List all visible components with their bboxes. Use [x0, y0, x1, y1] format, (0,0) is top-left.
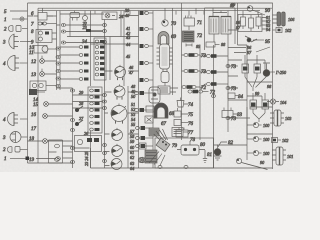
plug m8 [136, 127, 140, 130]
wire harness divider A [57, 11, 61, 90]
fuse 2 [95, 46, 99, 49]
sensor plug c [250, 100, 257, 109]
gauge 63 [111, 159, 122, 170]
plug m3 [140, 44, 144, 48]
wire divider L [213, 45, 215, 168]
plug 102a [273, 29, 276, 31]
lamp 3 rear [21, 136, 28, 138]
svg-text:95: 95 [265, 40, 271, 45]
node 1 lead [10, 158, 26, 160]
connector M88 [226, 87, 230, 90]
svg-text:1: 1 [4, 18, 7, 23]
wire divider O [246, 45, 248, 160]
plug L1 [79, 46, 83, 49]
svg-text:34: 34 [82, 40, 88, 45]
connector L96 [212, 95, 216, 98]
lamp 1 [12, 18, 28, 20]
svg-text:Г-250: Г-250 [275, 70, 287, 75]
svg-text:44: 44 [126, 42, 130, 47]
connector row y48 [56, 47, 60, 50]
relay 20 [70, 13, 80, 18]
connector M118 [226, 117, 230, 120]
ignition bay box [155, 138, 214, 168]
wire right bottom [214, 134, 273, 145]
lamp 16 [44, 102, 49, 107]
connector row y57 [56, 55, 60, 58]
wire frame top [28, 3, 273, 169]
wire divider G [138, 11, 140, 168]
svg-text:69: 69 [171, 35, 177, 40]
connector 72 [182, 85, 186, 88]
oil sensor 98 [263, 70, 270, 77]
svg-text:43: 43 [126, 35, 130, 40]
battery box [205, 8, 236, 50]
shunt 88 [213, 34, 215, 42]
svg-text:72: 72 [210, 91, 216, 96]
plug m2 [140, 27, 144, 31]
connector M30 [226, 29, 230, 32]
gauge 48 temp [114, 86, 125, 97]
wire rows to divider D [73, 95, 103, 108]
connector n1 [207, 54, 211, 57]
svg-text:68: 68 [169, 112, 175, 117]
wire divider C [90, 11, 92, 168]
svg-text:73: 73 [201, 70, 207, 75]
wire bus drops [95, 8, 258, 15]
ignition module hatch [145, 150, 157, 163]
switch 8 [36, 30, 52, 43]
svg-text:100: 100 [263, 151, 270, 156]
wire right column feeds [228, 45, 273, 139]
sensor 75a [146, 106, 154, 112]
svg-text:84: 84 [238, 95, 244, 100]
connector B y120 [70, 118, 74, 121]
connector row y86 [56, 84, 60, 87]
svg-text:71: 71 [197, 21, 202, 26]
svg-text:81: 81 [207, 153, 212, 158]
cyl 75 [174, 111, 181, 117]
svg-text:55: 55 [131, 122, 135, 127]
plug m6 [135, 92, 139, 95]
lighter 83 [222, 111, 233, 118]
node 5 lead [10, 10, 28, 12]
lamp 18 [43, 139, 48, 144]
svg-text:19: 19 [29, 158, 35, 163]
connector n4 [188, 90, 192, 93]
connector row y42 [61, 41, 65, 44]
plug 102b [272, 138, 278, 143]
sensor plug a [242, 64, 249, 73]
spark wire a [149, 152, 165, 166]
svg-text:70: 70 [171, 22, 177, 27]
wire divider M [227, 11, 229, 132]
bulb 100b [247, 138, 253, 140]
wire box bottom-left [49, 140, 73, 163]
wire divider E [123, 11, 125, 86]
svg-text:104: 104 [280, 100, 286, 105]
lamp 12 [40, 59, 45, 64]
connector D31 [103, 30, 107, 33]
wire divider J [181, 3, 183, 140]
horn 69 [158, 32, 169, 44]
starter 68 [154, 103, 168, 118]
fuse block 34 [94, 38, 106, 80]
wire gauge feeds [128, 71, 139, 151]
fuse 4 [95, 57, 99, 60]
fuse 6 [95, 68, 99, 71]
plug m7 [135, 109, 139, 112]
gauge 57 ammeter [112, 130, 123, 141]
connector 73a [184, 53, 188, 56]
svg-text:15: 15 [33, 103, 39, 108]
bulb 90b [236, 158, 241, 163]
connector B y148 [70, 146, 74, 149]
distributor 79 [154, 129, 168, 143]
plug r3 [90, 102, 94, 105]
cluster 101 [276, 147, 283, 165]
plug m4 [140, 61, 144, 65]
connector 7 [38, 22, 42, 25]
svg-text:23 24 25: 23 24 25 [84, 151, 89, 166]
wire divider E2 [109, 37, 111, 81]
wires converge 33 [253, 113, 265, 122]
plug r1 [90, 89, 94, 92]
regulator 71 [184, 18, 195, 26]
lamp 13 [40, 72, 45, 77]
plug r7 [90, 128, 94, 131]
heater switch 67 [158, 86, 170, 94]
svg-text:79: 79 [172, 144, 178, 149]
motor 10 [34, 46, 47, 54]
svg-text:80: 80 [200, 143, 206, 148]
sensor plug b [254, 64, 261, 73]
connector row y71 [56, 69, 60, 72]
wire bottom left [28, 162, 73, 164]
svg-text:85: 85 [196, 44, 200, 49]
sensor plug d [262, 100, 269, 109]
plug m9 [136, 137, 140, 140]
relay 6 [38, 13, 47, 21]
connector D25 [103, 24, 107, 27]
connector row y63 [56, 62, 60, 65]
gauge 60 oil [112, 146, 123, 157]
connector 19 [36, 158, 56, 160]
svg-text:1: 1 [4, 157, 7, 162]
svg-text:100: 100 [263, 123, 270, 128]
ignition switch 65 [160, 44, 170, 69]
lamp 2 front turn [22, 28, 28, 30]
box 26 [75, 136, 102, 152]
wire mid [67, 11, 139, 44]
svg-text:94: 94 [266, 27, 270, 32]
bulb 100a [247, 124, 253, 126]
fuse 7 [95, 73, 99, 76]
svg-text:83: 83 [237, 113, 243, 118]
wire divider N [237, 3, 239, 45]
resistor 72 [183, 31, 195, 42]
svg-text:103: 103 [285, 116, 291, 121]
wire divider H [152, 11, 154, 168]
lamp m11 [138, 157, 143, 162]
wire divider D [104, 20, 106, 169]
connector row y78 [56, 77, 60, 80]
plug L5 [79, 78, 83, 81]
capacitor 81 [203, 150, 207, 163]
connector block 26 [88, 87, 102, 133]
plug m1 [140, 11, 144, 15]
plug m5 [140, 78, 144, 82]
lamp 2 rear [20, 149, 28, 151]
connector B y90 [70, 89, 74, 92]
svg-text:18: 18 [29, 137, 35, 142]
svg-text:102: 102 [282, 138, 288, 143]
svg-text:78: 78 [190, 138, 196, 143]
headlight 4 rear [20, 118, 28, 120]
sensor 84 [228, 93, 235, 99]
wire right rungs [228, 30, 273, 88]
bulb 100c [247, 152, 253, 154]
plug r2 [90, 96, 94, 99]
connector B y162 [70, 160, 74, 163]
connector bay [158, 166, 162, 169]
connector row y25 [61, 23, 65, 26]
wire divider K [199, 45, 201, 140]
plug r6 [90, 122, 94, 125]
svg-text:106: 106 [288, 17, 295, 22]
svg-text:17: 17 [31, 127, 37, 132]
svg-text:74: 74 [188, 103, 194, 108]
switch 30 [76, 106, 83, 111]
lamp 104 [270, 99, 275, 104]
lamp 70 [162, 20, 168, 26]
svg-text:45: 45 [126, 54, 130, 59]
plug L2 [79, 54, 83, 57]
switch 31 [76, 120, 83, 125]
plug L3 [79, 62, 83, 65]
lamp 62 [139, 143, 146, 149]
fuse box 91-93 [238, 15, 262, 32]
wire bus top [38, 8, 272, 163]
plug r4 [90, 109, 94, 112]
svg-text:64: 64 [130, 166, 134, 171]
wire top loop [47, 14, 139, 16]
fuse 1 [95, 40, 99, 43]
plug L4 [79, 70, 83, 73]
cluster 103 [274, 110, 281, 126]
fuse 88b [186, 44, 192, 47]
washer pump 82 [214, 149, 221, 156]
gauge 46 fuel [115, 67, 126, 78]
connector row y31 [61, 30, 65, 33]
lamp box 24 [102, 12, 117, 20]
switch 14 [30, 81, 46, 91]
headlight 4 [20, 62, 28, 64]
svg-text:101: 101 [287, 154, 293, 159]
plug r5 [90, 115, 94, 118]
svg-text:67: 67 [161, 122, 167, 127]
svg-text:16: 16 [31, 113, 37, 118]
connector 73b [184, 69, 188, 72]
svg-text:100: 100 [263, 137, 270, 142]
wire rows left block [28, 16, 34, 42]
lamp 17 [43, 114, 48, 119]
connector B y130 [70, 128, 74, 131]
lamp 63 [140, 157, 146, 163]
gauge 51 speedometer [111, 106, 127, 122]
sensor 76a [145, 116, 153, 123]
switch 21 [83, 16, 88, 21]
svg-text:102: 102 [285, 28, 291, 33]
wire harness divider B [57, 88, 73, 168]
horn relay 66 [161, 72, 169, 83]
svg-text:11: 11 [29, 51, 34, 56]
connector n3 [200, 84, 206, 88]
ignition coil 80 [181, 145, 199, 155]
wiper motor 66b [149, 87, 160, 103]
relay 15 [29, 89, 37, 95]
fuse 5 [95, 62, 99, 65]
headlight 3 [20, 41, 28, 43]
connector n2 [207, 70, 211, 73]
wire divider I [172, 8, 174, 95]
wires converge 99 [245, 76, 267, 91]
wire gauge left feeds [105, 71, 113, 166]
lamp 90 [247, 6, 253, 12]
svg-text:75: 75 [188, 113, 194, 118]
fuse 3 [95, 51, 99, 54]
relay 23 block [86, 29, 91, 32]
svg-text:73: 73 [201, 54, 207, 59]
heater 77 [172, 128, 183, 137]
svg-text:90: 90 [265, 9, 271, 14]
sensor 76b [174, 120, 181, 126]
pot 74 [177, 101, 184, 108]
connector dots divider D [103, 94, 107, 97]
breaker 95 [245, 36, 257, 42]
flasher 106 [277, 12, 281, 26]
plug m10 [136, 145, 140, 148]
svg-text:76: 76 [188, 122, 194, 127]
wire bottom joins [63, 148, 105, 168]
battery 88 [209, 17, 219, 35]
svg-text:62: 62 [130, 155, 134, 160]
connector M66 [226, 65, 230, 68]
wire bottom mid [91, 167, 273, 169]
relay 78 [176, 130, 188, 137]
connector D42 [103, 41, 107, 44]
svg-text:77: 77 [188, 131, 194, 136]
svg-text:72: 72 [197, 34, 203, 39]
wire divider F [127, 86, 129, 168]
heater resistor [149, 128, 159, 136]
svg-text:12: 12 [31, 60, 37, 65]
svg-text:13: 13 [31, 73, 37, 78]
